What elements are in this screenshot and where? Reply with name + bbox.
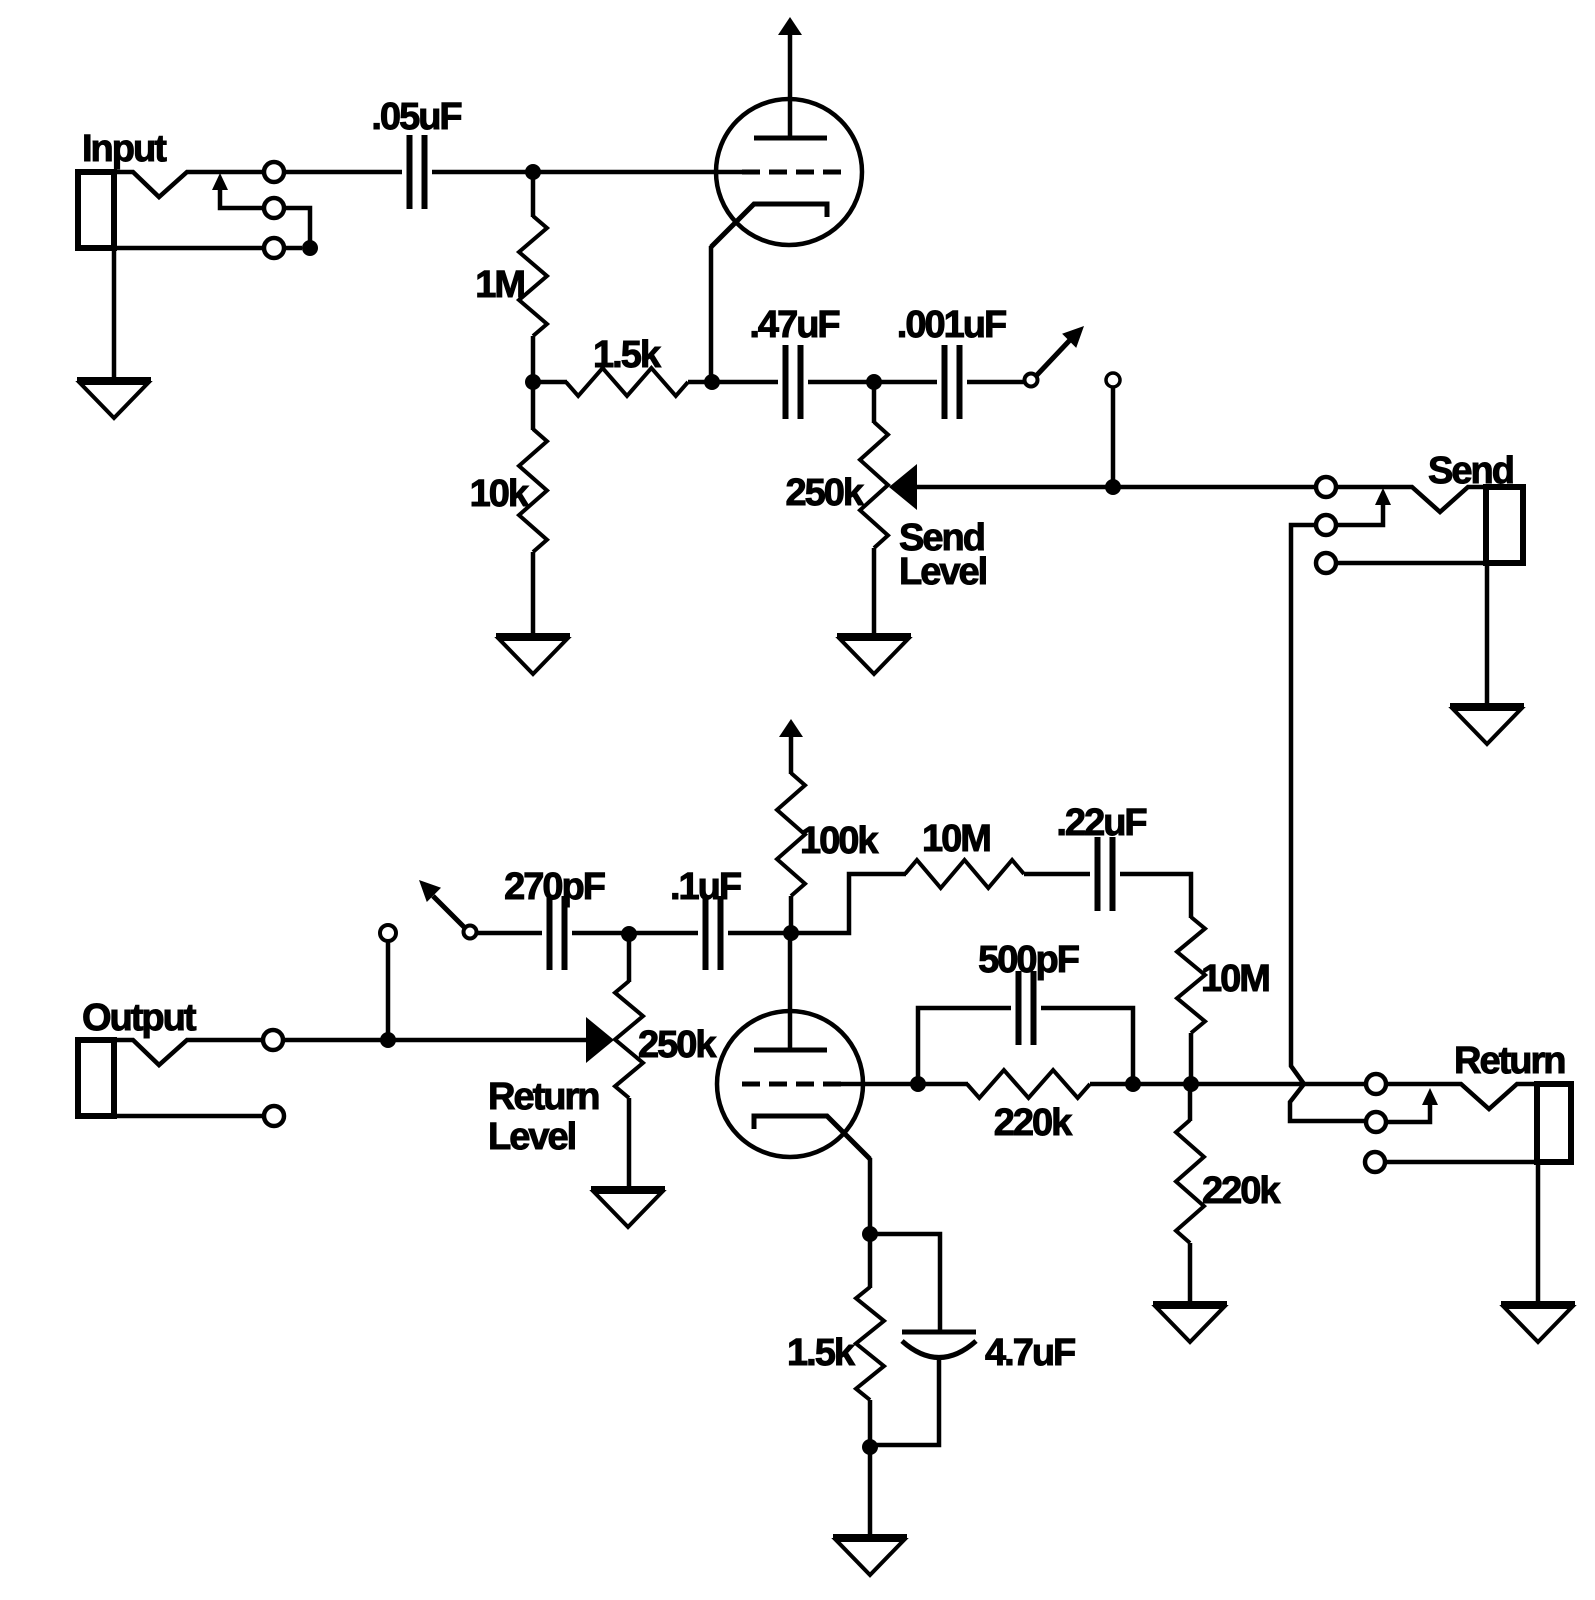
label C1 .05uF [371, 96, 461, 138]
svg-text:100k: 100k [800, 820, 879, 862]
tube V1 cathode [711, 204, 827, 247]
junction sleeve jumper [302, 240, 318, 256]
wire cathode to ground [868, 1447, 873, 1534]
jack J2 Send tip notch wire [1336, 487, 1489, 512]
capacitor C1 .05uF [410, 135, 425, 209]
jack J4 Return ring contact [1366, 1112, 1386, 1132]
label Input [82, 128, 167, 170]
label P2 250k [638, 1024, 717, 1066]
svg-text:10M: 10M [1201, 958, 1269, 1000]
wire C3 to switch S1 [967, 380, 1025, 385]
svg-text:10k: 10k [470, 473, 530, 515]
wire Return sleeve drop [1536, 1162, 1541, 1301]
wire J3 sleeve line [78, 1114, 264, 1119]
ground input jack [77, 380, 151, 418]
label C7 500pF [978, 939, 1079, 981]
potentiometer P2 250k Return Level [586, 934, 643, 1186]
ground send jack [1450, 706, 1524, 744]
node G junction [621, 926, 637, 942]
label C4 270pF [504, 866, 605, 908]
jack J4 Return sleeve contact [1365, 1152, 1385, 1172]
wire V2 cathode lead [868, 1158, 873, 1234]
wire Send ring normalling run [1290, 525, 1366, 1121]
svg-text:4.7uF: 4.7uF [985, 1332, 1075, 1374]
ground cathode network [833, 1537, 907, 1575]
ground return level pot [591, 1189, 665, 1227]
node I junction [380, 1032, 396, 1048]
svg-text:1.5k: 1.5k [593, 334, 662, 376]
resistor R8 220k vertical [1176, 1084, 1204, 1301]
switch S2 bright pole [464, 926, 477, 939]
capacitor C8 4.7uF bypass [870, 1234, 976, 1445]
switch S1 throw contact [1106, 373, 1120, 487]
ground return jack [1501, 1304, 1575, 1342]
svg-text:220k: 220k [1202, 1170, 1281, 1212]
switch S2 throw contact [380, 925, 396, 1040]
tube V2 cathode [754, 1116, 870, 1159]
jack J1 tip contact [264, 162, 284, 182]
label R4 100k [800, 820, 879, 862]
wire node G to C5 [629, 931, 698, 936]
node E junction wiper [1105, 479, 1121, 495]
svg-text:.1uF: .1uF [670, 866, 741, 908]
label C3 .001uF [897, 304, 1006, 346]
wire ring to sleeve jumper [284, 208, 310, 248]
node A junction [525, 164, 541, 180]
svg-text:270pF: 270pF [504, 866, 605, 908]
jack J2 Send sleeve contact [1316, 553, 1336, 573]
svg-text:Input: Input [82, 128, 167, 170]
wire C1 to V1 grid [432, 170, 742, 175]
capacitor C4 270pF [550, 896, 565, 970]
node B junction [525, 374, 541, 390]
tube V1 envelope [716, 99, 862, 245]
wire C4 to node G [572, 931, 629, 936]
label C2 .47uF [749, 304, 839, 346]
svg-text:Output: Output [82, 997, 197, 1039]
label R2 1.5k [593, 334, 662, 376]
label Send jack [1428, 450, 1513, 492]
label R3 10k [470, 473, 530, 515]
node K junction [1125, 1076, 1141, 1092]
label P1 250k [785, 472, 864, 514]
wire cathode row to C2 [712, 380, 778, 385]
ground 10k [496, 636, 570, 674]
capacitor C3 .001uF [945, 345, 960, 419]
wire C5 to node F [728, 931, 791, 936]
wire Send sleeve drop [1485, 563, 1490, 703]
label R5 10M [922, 818, 990, 860]
wire Return sleeve line [1385, 1160, 1571, 1165]
svg-text:10M: 10M [922, 818, 990, 860]
tube V2 envelope [717, 1011, 863, 1157]
tube V2 plate [754, 933, 827, 1050]
resistor R5 10M feedback [905, 860, 1090, 888]
svg-text:.22uF: .22uF [1056, 802, 1146, 844]
potentiometer P1 250k Send Level [860, 382, 917, 633]
svg-text:220k: 220k [994, 1102, 1073, 1144]
resistor R2 1.5k [533, 368, 712, 396]
jack J3 Output body [78, 1040, 264, 1116]
wire node F to R5 [791, 874, 906, 933]
jack J4 Return tip contact [1366, 1074, 1386, 1094]
jack J1 switch arrow [212, 173, 263, 208]
jack J1 ring contact [264, 198, 284, 218]
wire node K to Return tip [1133, 1082, 1366, 1087]
svg-text:.47uF: .47uF [749, 304, 839, 346]
capacitor C7 500pF [1019, 971, 1034, 1045]
node F junction plate [783, 925, 799, 941]
svg-text:250k: 250k [638, 1024, 717, 1066]
capacitor C6 .22uF [1098, 837, 1113, 911]
resistor R1 1M [519, 172, 547, 383]
ground send level pot [837, 636, 911, 674]
label Return jack [1454, 1040, 1564, 1082]
jack J1 Input body (sleeve rectangle and tip notch) [78, 172, 264, 248]
jack J2 Send tip contact [1316, 477, 1336, 497]
label R8 220k [1202, 1170, 1281, 1212]
node C junction cathode [704, 374, 720, 390]
wire sleeve drop to ground [112, 248, 117, 377]
label P2 Return Level [488, 1076, 598, 1158]
jack J2 Send switch arrow [1336, 488, 1391, 525]
ground 220k [1153, 1304, 1227, 1342]
jack J3 sleeve contact [264, 1106, 284, 1126]
node D junction [866, 374, 882, 390]
node L junction [1183, 1076, 1199, 1092]
jack J4 Return switch arrow [1386, 1088, 1438, 1122]
node J junction grid [910, 1076, 926, 1092]
resistor R3 10k [519, 382, 547, 633]
switch S1 bright pole [1025, 374, 1038, 387]
label R7 220k [994, 1102, 1073, 1144]
wire output tip to wiper [283, 1038, 586, 1043]
wire 500pF branch [918, 1008, 1133, 1084]
tube V2 grid [742, 1082, 912, 1087]
svg-text:Level: Level [488, 1116, 575, 1158]
svg-text:.001uF: .001uF [897, 304, 1006, 346]
label C8 4.7uF [985, 1332, 1075, 1374]
jack J4 Return tip notch wire [1386, 1084, 1540, 1109]
wire S2 to C4 [476, 931, 542, 936]
wire sleeve line [78, 246, 302, 251]
wire C6 to R6 [1120, 874, 1191, 918]
wire V1 cathode lead [709, 246, 714, 382]
tube V1 grid [742, 170, 842, 175]
svg-text:500pF: 500pF [978, 939, 1079, 981]
power B+ arrow 1 [778, 17, 802, 35]
node M junction cathode [862, 1226, 878, 1242]
jack J2 Send ring contact [1316, 515, 1336, 535]
wire Send sleeve line [1336, 561, 1523, 566]
capacitor C2 .47uF [786, 345, 801, 419]
switch S1 arm [1036, 326, 1084, 376]
label P1 Send Level [899, 517, 986, 593]
switch S2 arm [419, 880, 466, 929]
jack J1 sleeve contact [264, 238, 284, 258]
svg-text:1M: 1M [475, 264, 524, 306]
wire P1 wiper to Send jack [917, 485, 1316, 490]
capacitor C5 .1uF [706, 896, 721, 970]
svg-text:Return: Return [1454, 1040, 1564, 1082]
label R9 1.5k [787, 1332, 856, 1374]
label R6 10M [1201, 958, 1269, 1000]
wire tip to C1 [284, 170, 402, 175]
label C5 .1uF [670, 866, 741, 908]
power B+ arrow 2 [779, 719, 803, 774]
node N junction cathode bottom [862, 1439, 878, 1455]
jack J2 Send body [1486, 487, 1523, 563]
label Output [82, 997, 197, 1039]
wire node D to C3 [874, 380, 937, 385]
label R1 1M [475, 264, 524, 306]
resistor R9 1.5k cathode [856, 1234, 884, 1447]
resistor R6 10M vertical [1177, 917, 1205, 1084]
tube V1 plate [754, 35, 827, 138]
svg-text:1.5k: 1.5k [787, 1332, 856, 1374]
resistor R4 100k [777, 773, 805, 933]
jack J3 tip contact [263, 1030, 283, 1050]
svg-text:Return: Return [488, 1076, 598, 1118]
svg-text:Level: Level [899, 551, 986, 593]
svg-text:.05uF: .05uF [371, 96, 461, 138]
svg-text:250k: 250k [785, 472, 864, 514]
label C6 .22uF [1056, 802, 1146, 844]
wire C2 to node D [808, 380, 874, 385]
jack J4 Return body [1537, 1084, 1571, 1162]
resistor R7 220k [918, 1070, 1133, 1098]
